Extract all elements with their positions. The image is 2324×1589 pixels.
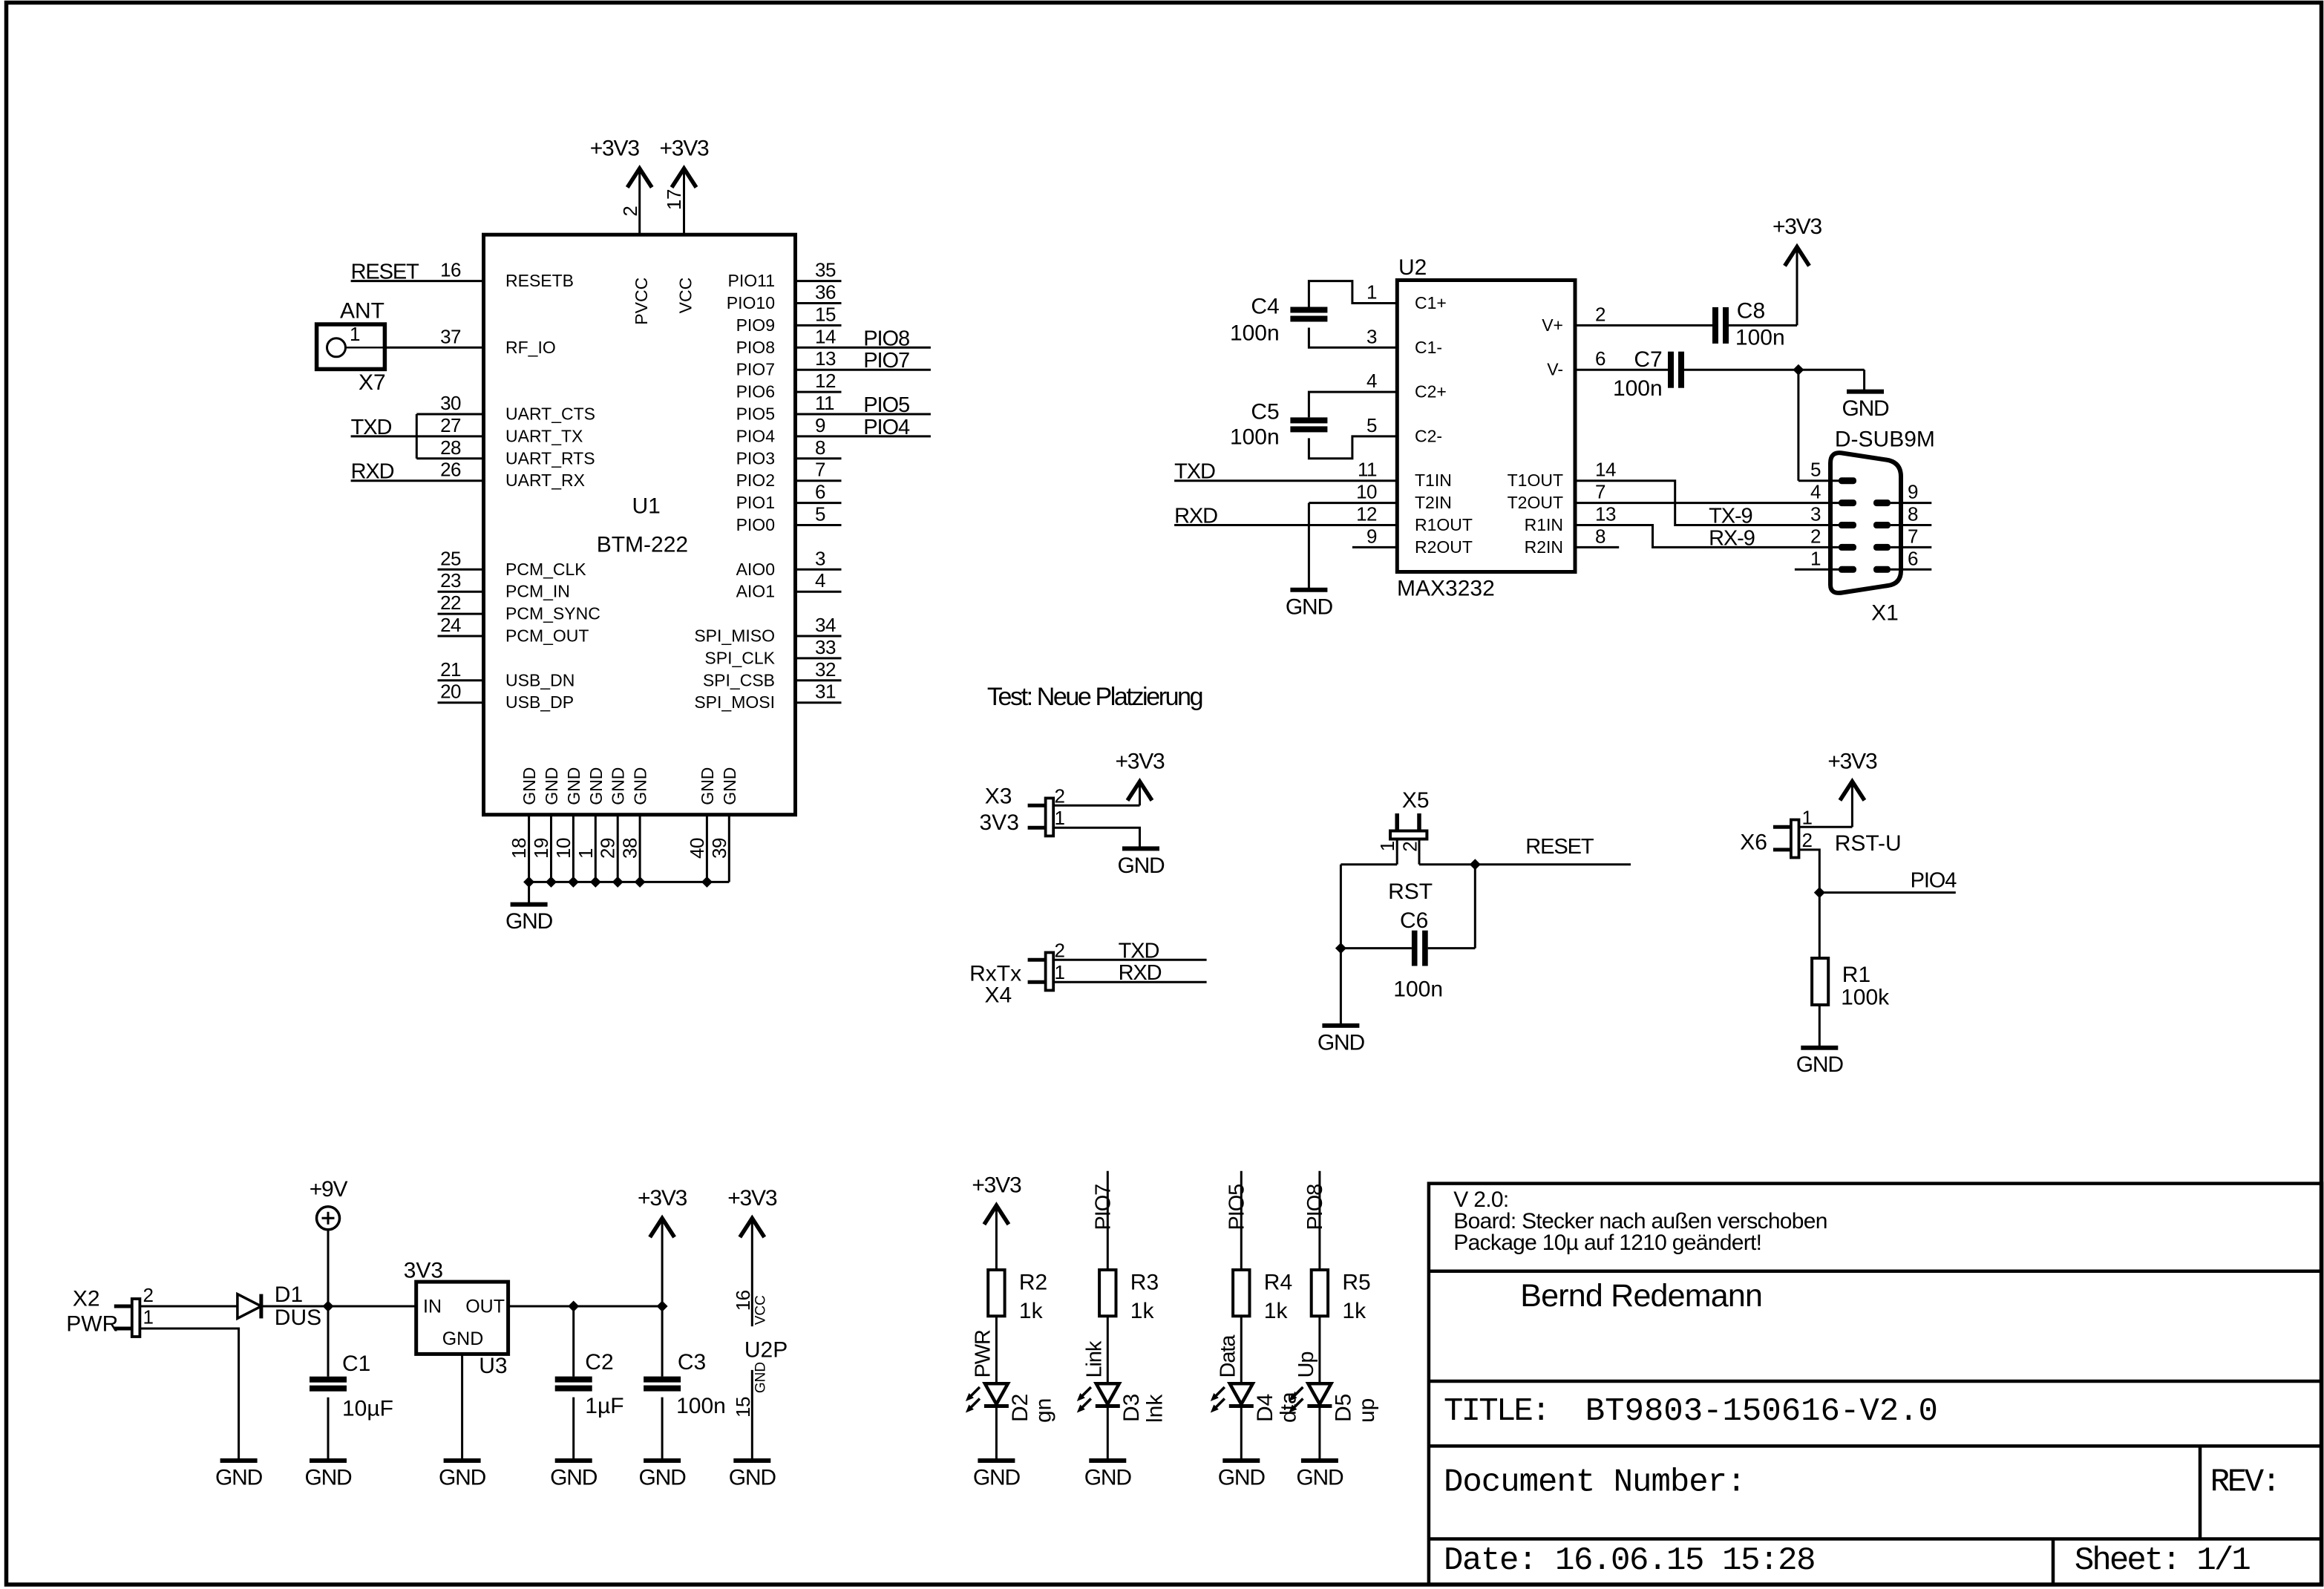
svg-text:2: 2 <box>143 1284 154 1306</box>
svg-text:11: 11 <box>1358 459 1377 481</box>
svg-text:RESET: RESET <box>1525 835 1594 859</box>
svg-text:D-SUB9M: D-SUB9M <box>1835 427 1935 451</box>
svg-text:+3V3: +3V3 <box>1827 749 1877 773</box>
svg-text:PIO5: PIO5 <box>1225 1185 1248 1231</box>
svg-text:SPI_MOSI: SPI_MOSI <box>694 692 775 712</box>
svg-text:1: 1 <box>575 848 597 859</box>
svg-text:GND: GND <box>505 909 553 934</box>
svg-text:D1: D1 <box>275 1282 303 1307</box>
svg-text:14: 14 <box>1595 459 1616 481</box>
svg-text:+3V3: +3V3 <box>1115 750 1165 774</box>
svg-text:R2IN: R2IN <box>1525 537 1563 557</box>
svg-text:PIO4: PIO4 <box>1911 869 1957 893</box>
svg-text:Link: Link <box>1082 1340 1106 1377</box>
svg-text:4: 4 <box>815 569 825 592</box>
svg-text:PCM_SYNC: PCM_SYNC <box>505 604 600 623</box>
svg-text:C8: C8 <box>1737 299 1765 324</box>
svg-text:SPI_CSB: SPI_CSB <box>703 670 775 689</box>
svg-text:29: 29 <box>597 838 619 859</box>
svg-text:TXD: TXD <box>1119 939 1159 963</box>
svg-text:21: 21 <box>440 658 461 681</box>
svg-text:GND: GND <box>720 767 739 805</box>
svg-text:OUT: OUT <box>465 1297 505 1317</box>
svg-text:10µF: 10µF <box>342 1396 393 1421</box>
svg-text:9: 9 <box>815 414 825 436</box>
svg-text:UART_TX: UART_TX <box>505 426 583 445</box>
svg-text:4: 4 <box>1810 481 1821 503</box>
svg-text:1: 1 <box>1366 281 1377 304</box>
svg-text:GND: GND <box>1296 1466 1343 1490</box>
svg-text:3: 3 <box>1366 325 1377 347</box>
svg-text:25: 25 <box>440 547 461 569</box>
svg-text:5: 5 <box>1810 459 1821 481</box>
svg-text:RST-U: RST-U <box>1835 831 1902 856</box>
svg-text:GND: GND <box>631 767 650 805</box>
svg-text:C1: C1 <box>342 1352 370 1376</box>
svg-text:40: 40 <box>686 838 708 859</box>
svg-text:16: 16 <box>440 259 461 281</box>
svg-text:+3V3: +3V3 <box>638 1186 687 1210</box>
svg-text:6: 6 <box>1595 347 1605 370</box>
svg-text:1k: 1k <box>1342 1299 1366 1323</box>
svg-text:1: 1 <box>1802 806 1813 828</box>
svg-text:22: 22 <box>440 592 461 614</box>
svg-text:X3: X3 <box>985 784 1012 809</box>
svg-text:PIO5: PIO5 <box>736 404 775 424</box>
svg-text:6: 6 <box>815 481 825 503</box>
svg-text:VCC: VCC <box>676 278 695 314</box>
svg-text:D2: D2 <box>1008 1394 1032 1422</box>
svg-text:1k: 1k <box>1264 1299 1289 1323</box>
svg-text:PIO7: PIO7 <box>863 349 909 373</box>
svg-text:Date: 16.06.15 15:28: Date: 16.06.15 15:28 <box>1444 1542 1815 1579</box>
svg-text:GND: GND <box>442 1328 484 1349</box>
svg-text:AIO1: AIO1 <box>736 582 775 601</box>
svg-text:Bernd Redemann: Bernd Redemann <box>1520 1278 1762 1314</box>
svg-text:13: 13 <box>815 347 836 370</box>
svg-text:X1: X1 <box>1871 600 1899 625</box>
svg-text:10: 10 <box>552 838 575 859</box>
svg-text:18: 18 <box>508 838 530 859</box>
svg-text:11: 11 <box>815 392 834 414</box>
svg-text:1: 1 <box>1055 961 1065 983</box>
svg-text:37: 37 <box>440 325 461 347</box>
svg-text:1k: 1k <box>1130 1299 1155 1323</box>
svg-text:C1-: C1- <box>1415 338 1442 357</box>
svg-text:5: 5 <box>815 503 825 525</box>
svg-text:16: 16 <box>732 1290 754 1311</box>
svg-text:1k: 1k <box>1019 1299 1044 1323</box>
svg-text:PVCC: PVCC <box>632 278 651 325</box>
svg-text:GND: GND <box>1286 594 1333 619</box>
svg-text:2: 2 <box>1802 829 1813 851</box>
svg-text:R1: R1 <box>1842 963 1870 987</box>
svg-text:GND: GND <box>1117 854 1165 878</box>
svg-text:T1OUT: T1OUT <box>1508 471 1563 490</box>
svg-text:R1IN: R1IN <box>1525 515 1563 534</box>
svg-text:X6: X6 <box>1740 830 1767 854</box>
svg-text:3V3: 3V3 <box>404 1258 443 1282</box>
svg-text:PCM_OUT: PCM_OUT <box>505 626 589 646</box>
svg-text:TXD: TXD <box>351 416 392 439</box>
svg-text:1: 1 <box>143 1306 154 1328</box>
svg-text:7: 7 <box>815 459 825 481</box>
svg-text:R5: R5 <box>1342 1271 1370 1295</box>
svg-text:9: 9 <box>1366 525 1377 547</box>
svg-text:GND: GND <box>973 1466 1021 1490</box>
svg-text:8: 8 <box>1595 525 1605 547</box>
svg-text:SPI_MISO: SPI_MISO <box>694 626 775 646</box>
svg-text:C2: C2 <box>585 1350 613 1375</box>
svg-text:20: 20 <box>440 681 461 703</box>
svg-text:R2: R2 <box>1019 1271 1047 1295</box>
svg-text:31: 31 <box>815 681 836 703</box>
svg-text:33: 33 <box>815 636 836 658</box>
svg-text:2: 2 <box>1055 939 1065 961</box>
svg-text:1: 1 <box>1810 547 1821 569</box>
svg-text:TITLE:: TITLE: <box>1444 1393 1549 1430</box>
svg-text:C1+: C1+ <box>1415 293 1447 312</box>
svg-text:C2-: C2- <box>1415 426 1442 445</box>
svg-text:C4: C4 <box>1251 295 1279 319</box>
svg-text:2: 2 <box>619 206 641 217</box>
svg-text:D3: D3 <box>1119 1394 1144 1422</box>
svg-text:USB_DP: USB_DP <box>505 692 574 712</box>
svg-text:3: 3 <box>815 547 825 569</box>
svg-text:T2IN: T2IN <box>1415 493 1452 512</box>
svg-text:1: 1 <box>1376 841 1398 851</box>
svg-text:19: 19 <box>530 838 552 859</box>
svg-text:10: 10 <box>1356 481 1377 503</box>
svg-text:R3: R3 <box>1130 1271 1159 1295</box>
svg-text:C5: C5 <box>1251 399 1279 424</box>
svg-text:PIO9: PIO9 <box>736 315 775 335</box>
svg-text:BTM-222: BTM-222 <box>597 532 688 557</box>
svg-text:PIO11: PIO11 <box>728 271 776 290</box>
svg-text:PWR: PWR <box>66 1312 118 1337</box>
svg-text:100n: 100n <box>676 1394 726 1418</box>
svg-text:3V3: 3V3 <box>980 810 1019 835</box>
svg-text:7: 7 <box>1908 525 1918 547</box>
svg-text:GND: GND <box>1842 396 1889 421</box>
svg-text:UART_RX: UART_RX <box>505 471 585 490</box>
svg-text:PIO7: PIO7 <box>736 360 775 379</box>
svg-text:PIO8: PIO8 <box>863 327 909 350</box>
svg-text:up: up <box>1355 1398 1379 1423</box>
svg-text:D5: D5 <box>1331 1394 1355 1422</box>
svg-text:C7: C7 <box>1634 347 1662 372</box>
svg-text:R2OUT: R2OUT <box>1415 537 1473 557</box>
svg-text:PIO4: PIO4 <box>736 426 776 445</box>
svg-text:GND: GND <box>1084 1466 1132 1490</box>
svg-text:100k: 100k <box>1841 985 1890 1009</box>
svg-text:C6: C6 <box>1400 908 1428 933</box>
svg-text:GND: GND <box>1218 1466 1266 1490</box>
svg-text:39: 39 <box>708 838 730 859</box>
svg-text:R4: R4 <box>1264 1271 1292 1295</box>
svg-text:PIO8: PIO8 <box>1303 1185 1327 1231</box>
svg-text:15: 15 <box>732 1397 754 1418</box>
svg-text:32: 32 <box>815 658 836 681</box>
svg-text:12: 12 <box>815 370 836 392</box>
svg-text:2: 2 <box>1055 784 1065 807</box>
svg-text:PIO2: PIO2 <box>736 471 775 490</box>
svg-text:GND: GND <box>698 767 717 805</box>
svg-text:100n: 100n <box>1735 326 1785 350</box>
svg-text:PIO6: PIO6 <box>736 382 775 402</box>
svg-text:Package 10µ auf 1210 geändert!: Package 10µ auf 1210 geändert! <box>1453 1231 1761 1255</box>
svg-text:36: 36 <box>815 281 836 304</box>
svg-text:RF_IO: RF_IO <box>505 338 556 357</box>
svg-text:REV:: REV: <box>2210 1464 2279 1501</box>
svg-text:23: 23 <box>440 569 461 592</box>
svg-text:5: 5 <box>1366 414 1377 436</box>
svg-text:MAX3232: MAX3232 <box>1397 576 1495 600</box>
svg-text:PIO4: PIO4 <box>863 416 910 439</box>
svg-text:Sheet: 1/1: Sheet: 1/1 <box>2075 1542 2251 1579</box>
svg-text:BT9803-150616-V2.0: BT9803-150616-V2.0 <box>1585 1393 1938 1430</box>
svg-text:8: 8 <box>1908 503 1918 525</box>
svg-text:28: 28 <box>440 436 461 459</box>
svg-text:D4: D4 <box>1253 1394 1277 1422</box>
svg-text:Data: Data <box>1216 1334 1240 1378</box>
svg-text:100n: 100n <box>1393 977 1443 1002</box>
svg-text:PCM_IN: PCM_IN <box>505 582 570 601</box>
svg-text:TXD: TXD <box>1174 460 1215 484</box>
svg-text:2: 2 <box>1595 303 1605 325</box>
svg-text:TX-9: TX-9 <box>1709 505 1752 528</box>
svg-text:GND: GND <box>215 1466 263 1490</box>
svg-text:UART_CTS: UART_CTS <box>505 404 595 424</box>
svg-text:U1: U1 <box>632 494 661 519</box>
svg-text:3: 3 <box>1810 503 1821 525</box>
svg-text:13: 13 <box>1595 503 1616 525</box>
svg-text:UART_RTS: UART_RTS <box>505 448 595 468</box>
svg-text:RESETB: RESETB <box>505 271 574 290</box>
svg-text:gn: gn <box>1031 1398 1055 1423</box>
svg-text:PCM_CLK: PCM_CLK <box>505 560 586 579</box>
svg-text:PIO1: PIO1 <box>736 493 775 512</box>
svg-text:26: 26 <box>440 459 461 481</box>
svg-text:24: 24 <box>440 614 461 636</box>
svg-text:1: 1 <box>350 323 360 345</box>
svg-text:GND: GND <box>1796 1052 1844 1077</box>
svg-text:GND: GND <box>609 767 628 805</box>
svg-text:PIO3: PIO3 <box>736 448 775 468</box>
svg-text:PIO7: PIO7 <box>1091 1185 1115 1231</box>
svg-text:+3V3: +3V3 <box>972 1173 1021 1198</box>
svg-text:ANT: ANT <box>340 299 384 324</box>
svg-text:DUS: DUS <box>275 1305 321 1330</box>
svg-text:30: 30 <box>440 392 461 414</box>
svg-text:RXD: RXD <box>351 460 394 484</box>
svg-text:Document Number:: Document Number: <box>1444 1464 1745 1501</box>
svg-text:PIO10: PIO10 <box>727 293 775 312</box>
svg-text:12: 12 <box>1356 503 1377 525</box>
svg-text:U2P: U2P <box>744 1337 788 1362</box>
svg-text:X7: X7 <box>359 370 386 395</box>
svg-text:USB_DN: USB_DN <box>505 670 575 689</box>
svg-text:C2+: C2+ <box>1415 382 1447 402</box>
svg-text:AIO0: AIO0 <box>736 560 775 579</box>
svg-text:RXD: RXD <box>1119 961 1162 985</box>
svg-text:GND: GND <box>753 1362 769 1393</box>
svg-text:100n: 100n <box>1613 376 1663 401</box>
svg-text:GND: GND <box>542 767 561 805</box>
svg-text:GND: GND <box>586 767 606 805</box>
svg-text:U3: U3 <box>479 1354 507 1378</box>
svg-text:lnk: lnk <box>1142 1394 1167 1423</box>
svg-text:GND: GND <box>1318 1030 1365 1055</box>
svg-text:T1IN: T1IN <box>1415 471 1452 490</box>
svg-text:+9V: +9V <box>310 1177 348 1202</box>
svg-text:Up: Up <box>1294 1352 1318 1378</box>
svg-text:GND: GND <box>520 767 539 805</box>
svg-text:SPI_CLK: SPI_CLK <box>704 648 775 667</box>
svg-text:27: 27 <box>440 414 461 436</box>
svg-text:17: 17 <box>663 189 685 210</box>
svg-text:6: 6 <box>1908 547 1918 569</box>
svg-text:7: 7 <box>1595 481 1605 503</box>
svg-text:VCC: VCC <box>753 1295 769 1325</box>
svg-text:RXD: RXD <box>1174 505 1217 528</box>
svg-text:GND: GND <box>304 1466 352 1490</box>
svg-text:1µF: 1µF <box>585 1394 623 1418</box>
svg-text:Test: Neue Platzierung: Test: Neue Platzierung <box>987 683 1202 711</box>
svg-text:T2OUT: T2OUT <box>1508 493 1563 512</box>
svg-text:+3V3: +3V3 <box>659 137 709 161</box>
svg-text:PIO5: PIO5 <box>863 393 909 417</box>
svg-text:2: 2 <box>1810 525 1821 547</box>
svg-text:1: 1 <box>1055 807 1065 829</box>
svg-text:+3V3: +3V3 <box>590 137 640 161</box>
svg-text:2: 2 <box>1398 842 1421 852</box>
svg-text:R1OUT: R1OUT <box>1415 515 1473 534</box>
svg-text:14: 14 <box>815 325 836 347</box>
svg-text:GND: GND <box>439 1466 486 1490</box>
svg-text:RESET: RESET <box>351 261 420 284</box>
svg-text:X4: X4 <box>985 983 1012 1007</box>
svg-text:35: 35 <box>815 259 836 281</box>
svg-text:RST: RST <box>1388 879 1433 904</box>
svg-text:IN: IN <box>423 1297 442 1317</box>
svg-text:V-: V- <box>1547 360 1563 379</box>
svg-text:X5: X5 <box>1402 788 1430 813</box>
svg-text:34: 34 <box>815 614 836 636</box>
svg-text:100n: 100n <box>1230 425 1280 449</box>
svg-text:GND: GND <box>639 1466 687 1490</box>
svg-text:100n: 100n <box>1230 321 1280 346</box>
svg-text:PIO8: PIO8 <box>736 338 775 357</box>
svg-text:PIO0: PIO0 <box>736 515 775 534</box>
svg-text:9: 9 <box>1908 481 1918 503</box>
svg-text:RX-9: RX-9 <box>1709 526 1755 550</box>
svg-text:PWR: PWR <box>971 1330 995 1378</box>
svg-text:15: 15 <box>815 303 836 325</box>
svg-text:8: 8 <box>815 436 825 459</box>
svg-text:C3: C3 <box>678 1350 706 1375</box>
svg-text:38: 38 <box>619 838 641 859</box>
svg-text:+3V3: +3V3 <box>1773 214 1822 239</box>
svg-text:GND: GND <box>550 1466 598 1490</box>
svg-text:U2: U2 <box>1398 255 1427 280</box>
svg-text:dta: dta <box>1276 1392 1300 1423</box>
svg-text:GND: GND <box>564 767 583 805</box>
svg-text:V+: V+ <box>1542 315 1563 335</box>
svg-text:+3V3: +3V3 <box>727 1186 777 1210</box>
svg-text:4: 4 <box>1366 370 1377 392</box>
svg-text:X2: X2 <box>73 1286 100 1311</box>
svg-text:GND: GND <box>729 1466 776 1490</box>
